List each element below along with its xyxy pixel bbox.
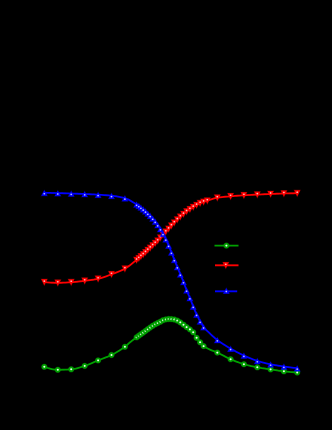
green curve line [44, 319, 297, 373]
blue curve line [44, 193, 297, 368]
legend green sample [215, 243, 239, 249]
red curve line [44, 193, 297, 283]
legend blue sample [215, 288, 237, 294]
blue curve markers [41, 190, 300, 371]
red curve markers [41, 190, 300, 286]
legend red sample [215, 262, 239, 268]
green curve markers [42, 316, 300, 375]
